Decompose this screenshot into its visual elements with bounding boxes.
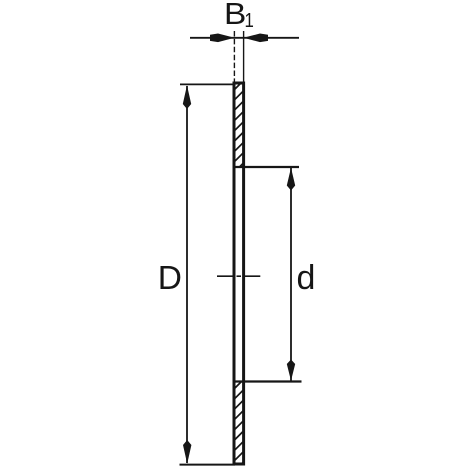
d arrow top [287,168,295,191]
D dimension line [186,86,188,463]
washer section outline [234,83,244,464]
svg-text:B: B [224,0,246,31]
B1 arrow left [210,34,235,43]
B1 arrow right [244,34,269,43]
svg-text:1: 1 [245,8,254,31]
D extension line bottom [180,464,236,466]
B1 extension tick right [243,31,245,82]
hatching top annulus [232,78,246,174]
svg-text:d: d [297,259,316,297]
svg-text:D: D [158,260,182,297]
B1 dimension line [190,37,299,39]
B1 extension tick left [233,31,235,82]
bore bottom edge + d bottom extension line [234,380,302,382]
hatching bottom annulus [232,377,246,470]
d arrow bottom [287,360,295,381]
centre mark dash-dot [217,275,260,277]
d dimension line [290,168,292,381]
D arrow top [183,85,191,109]
D extension line top [180,83,234,85]
bore top edge + d top extension line [234,166,300,168]
D arrow bottom [183,440,191,464]
